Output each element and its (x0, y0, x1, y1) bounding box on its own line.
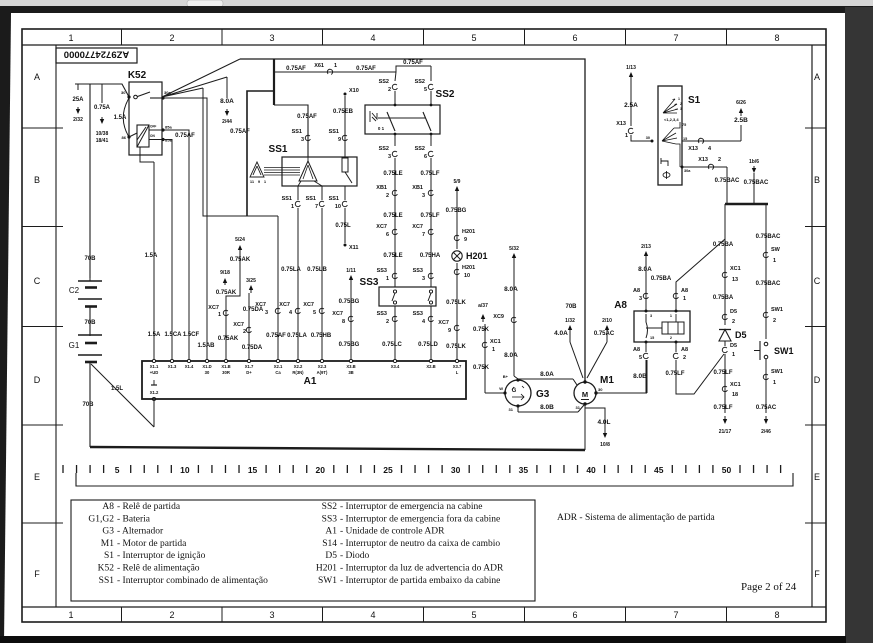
svg-text:1: 1 (625, 133, 628, 139)
svg-text:2.5B: 2.5B (734, 117, 748, 124)
svg-text:8.0A: 8.0A (504, 352, 518, 359)
svg-text:2: 2 (388, 87, 391, 93)
svg-text:1/32: 1/32 (565, 318, 575, 324)
svg-text:X2.1: X2.1 (274, 364, 283, 369)
wire 0.75K to G3 W (482, 316, 484, 322)
svg-text:15: 15 (650, 336, 654, 340)
wire node top-left (75, 84, 129, 97)
svg-text:X1.2: X1.2 (150, 390, 159, 395)
svg-text:0 1: 0 1 (378, 126, 385, 131)
svg-text:3: 3 (639, 296, 642, 302)
svg-text:1: 1 (218, 312, 221, 318)
svg-text:B+: B+ (503, 374, 509, 379)
rail 0.75AF branch (273, 59, 275, 105)
fuse ref 0.75A (101, 84, 103, 103)
svg-text:8: 8 (774, 33, 779, 43)
svg-text:2: 2 (169, 610, 174, 620)
svg-text:A8: A8 (633, 288, 640, 294)
svg-text:1: 1 (670, 314, 672, 318)
svg-text:2: 2 (718, 157, 721, 163)
svg-text:70B: 70B (565, 304, 577, 310)
svg-text:G1: G1 (69, 341, 80, 350)
svg-text:D5: D5 (325, 551, 337, 561)
svg-text:A: A (814, 72, 820, 82)
svg-text:X13: X13 (616, 121, 626, 127)
svg-text:0.75HB: 0.75HB (311, 333, 332, 339)
K52 contact 30 (127, 95, 130, 98)
wire 0.75LF A8 pin 2 to D5 (676, 354, 724, 394)
svg-text:2/13: 2/13 (641, 244, 651, 250)
wire 0.75LE SS2-3 down (394, 158, 396, 287)
svg-text:0.75AK: 0.75AK (218, 336, 239, 342)
svg-text:5: 5 (471, 610, 476, 620)
svg-text:1: 1 (683, 296, 686, 302)
svg-text:2: 2 (683, 355, 686, 361)
svg-text:A8: A8 (681, 347, 688, 353)
svg-text:0.75EB: 0.75EB (333, 109, 354, 115)
ADR control unit A1 (142, 361, 466, 399)
svg-text:5: 5 (313, 310, 316, 316)
svg-text:M1: M1 (600, 375, 614, 386)
svg-text:SS2: SS2 (379, 79, 389, 85)
svg-text:W: W (499, 386, 503, 391)
svg-text:SS1: SS1 (292, 129, 302, 135)
svg-text:31: 31 (509, 407, 514, 412)
svg-text:3B: 3B (348, 370, 353, 375)
svg-text:A8: A8 (102, 502, 114, 512)
svg-text:0.75LC: 0.75LC (382, 342, 402, 348)
svg-text:30a: 30a (684, 169, 691, 173)
wire 0.75AK column to A1 X1.B (239, 247, 241, 253)
svg-text:0.75AF: 0.75AF (297, 114, 317, 120)
svg-text:M1: M1 (101, 539, 114, 549)
svg-text:0.75AF: 0.75AF (286, 66, 306, 72)
A8 internal contact and coil (646, 314, 662, 338)
svg-text:X1.7: X1.7 (245, 364, 254, 369)
svg-text:3: 3 (269, 33, 274, 43)
svg-text:0.75LF: 0.75LF (713, 405, 732, 411)
svg-text:2: 2 (243, 329, 246, 335)
svg-text:XC7: XC7 (438, 320, 449, 326)
connector X61 pin 1 (327, 69, 332, 74)
svg-text:0.75LA: 0.75LA (287, 333, 307, 339)
svg-text:0.75AC: 0.75AC (756, 405, 777, 411)
svg-text:SS3: SS3 (322, 514, 338, 524)
SS2 pins bottom (394, 133, 397, 136)
svg-text:4.0L: 4.0L (597, 419, 610, 426)
svg-text:10: 10 (464, 273, 470, 279)
svg-text:XC7: XC7 (208, 305, 219, 311)
svg-text:K52: K52 (128, 70, 147, 81)
svg-text:SS1: SS1 (269, 144, 288, 155)
svg-text:86: 86 (122, 135, 127, 140)
svg-text:H201: H201 (462, 229, 475, 235)
svg-text:9: 9 (464, 237, 467, 243)
svg-text:SW1: SW1 (774, 346, 794, 356)
svg-text:Ca: Ca (275, 370, 281, 375)
svg-text:SS3: SS3 (413, 311, 423, 317)
svg-text:A1: A1 (304, 376, 317, 387)
svg-text:A1: A1 (325, 527, 337, 537)
svg-text:XC7: XC7 (332, 311, 343, 317)
svg-text:XC7: XC7 (303, 302, 314, 308)
alternator G3 (505, 380, 531, 406)
svg-text:C: C (814, 276, 821, 286)
svg-text:0.75LE: 0.75LE (383, 171, 402, 177)
SS2 feed corner (395, 66, 431, 81)
svg-text:8.0A: 8.0A (504, 286, 518, 293)
svg-text:0.75BA: 0.75BA (713, 242, 734, 248)
svg-text:10: 10 (180, 465, 190, 475)
svg-text:- Relê de partida: - Relê de partida (117, 502, 181, 512)
svg-text:50: 50 (722, 465, 732, 475)
svg-text:0.75A: 0.75A (94, 105, 111, 111)
svg-text:70B: 70B (82, 402, 94, 408)
top grid strip line (22, 44, 826, 46)
svg-text:0.75BAC: 0.75BAC (744, 180, 769, 186)
svg-text:- Relê de alimentação: - Relê de alimentação (117, 564, 200, 574)
svg-text:0.75LF: 0.75LF (420, 171, 439, 177)
svg-text:0.75BAC: 0.75BAC (715, 178, 740, 184)
svg-text:8.0A: 8.0A (638, 266, 652, 273)
svg-text:0.75LF: 0.75LF (713, 370, 732, 376)
svg-text:H201: H201 (462, 265, 475, 271)
svg-text:8: 8 (774, 610, 779, 620)
svg-text:SS3: SS3 (377, 268, 387, 274)
svg-text:1.5AB: 1.5AB (197, 343, 215, 349)
svg-text:1b/6: 1b/6 (749, 159, 759, 165)
svg-text:7: 7 (673, 33, 678, 43)
svg-text:5/24: 5/24 (235, 237, 245, 243)
svg-text:Page 2 of 24: Page 2 of 24 (741, 581, 797, 593)
svg-text:D5: D5 (730, 343, 737, 349)
svg-text:2: 2 (670, 336, 672, 340)
svg-text:M: M (582, 390, 588, 399)
svg-text:5: 5 (424, 87, 427, 93)
connector A8 pin 5 (643, 353, 648, 358)
svg-text:70B: 70B (84, 320, 96, 326)
svg-text:0.75BG: 0.75BG (446, 208, 467, 214)
svg-text:SS2: SS2 (322, 502, 338, 512)
wire 0.75LF SS2-6 down (430, 158, 432, 287)
svg-text:A8: A8 (681, 288, 688, 294)
svg-text:X2.B: X2.B (426, 364, 435, 369)
svg-text:85a: 85a (165, 125, 172, 130)
svg-text:2: 2 (386, 193, 389, 199)
svg-text:1: 1 (386, 276, 389, 282)
svg-text:X13: X13 (698, 157, 708, 163)
connector A8 pin 1 (673, 293, 678, 298)
svg-text:XC7: XC7 (412, 224, 423, 230)
svg-text:0.75LK: 0.75LK (446, 344, 466, 350)
svg-text:X3.7: X3.7 (453, 364, 462, 369)
wire 0.75AC ref to M1 (606, 327, 608, 333)
wire 0.75BAC to switch SW1 (765, 204, 767, 339)
right grid strip inner line (811, 45, 813, 607)
svg-text:F: F (814, 569, 820, 579)
svg-text:7: 7 (673, 610, 678, 620)
svg-text:0.75LD: 0.75LD (418, 342, 438, 348)
svg-text:XC7: XC7 (233, 322, 244, 328)
connector XC1 pin 1 (482, 342, 487, 347)
svg-text:X1.3: X1.3 (168, 364, 177, 369)
svg-text:1.5A: 1.5A (148, 332, 161, 338)
svg-text:1/11: 1/11 (346, 268, 356, 274)
svg-text:8.0A: 8.0A (220, 98, 234, 105)
svg-text:1: 1 (68, 610, 73, 620)
svg-text:C: C (34, 276, 41, 286)
svg-text:SS2: SS2 (436, 89, 455, 100)
SS3 contacts (393, 290, 396, 293)
svg-text:0.75BAC: 0.75BAC (756, 234, 781, 240)
svg-text:2/32: 2/32 (73, 117, 83, 123)
connector XC9 (511, 317, 516, 322)
svg-text:3: 3 (388, 154, 391, 160)
svg-text:SW: SW (771, 247, 781, 253)
svg-text:X10: X10 (349, 88, 359, 94)
svg-text:6: 6 (424, 154, 427, 160)
SS1 link lines (264, 167, 300, 169)
wire S1 30a to 0.75BAC (682, 166, 727, 168)
wire 4.0L from M1 (585, 408, 605, 431)
svg-text:XC1: XC1 (490, 339, 501, 345)
svg-text:2: 2 (386, 319, 389, 325)
svg-text:- Interruptor de emergencia fo: - Interruptor de emergencia fora da cabi… (340, 513, 500, 524)
svg-text:8: 8 (342, 319, 345, 325)
bottom grid strip line (22, 606, 826, 608)
connector XC1 pin 18 (722, 386, 727, 391)
svg-text:1: 1 (291, 204, 294, 210)
wire M1 31 to bus (584, 404, 586, 450)
svg-text:0.75BG: 0.75BG (339, 299, 360, 305)
svg-text:- Interruptor de neutro da cai: - Interruptor de neutro da caixa de camb… (340, 539, 500, 549)
svg-text:<1,2,3,4: <1,2,3,4 (664, 117, 679, 122)
svg-text:XB1: XB1 (376, 185, 387, 191)
svg-text:A(9T): A(9T) (317, 370, 328, 375)
svg-text:L: L (456, 370, 459, 375)
SS3 pins bottom (394, 306, 396, 361)
svg-text:E: E (814, 472, 820, 482)
wire G1 negative to ground bus 70B (89, 362, 91, 447)
svg-text:+UD: +UD (150, 370, 159, 375)
connector X13 pin 4 (698, 138, 703, 143)
svg-text:0.75HA: 0.75HA (420, 253, 441, 259)
svg-text:G1,G2: G1,G2 (88, 514, 114, 524)
svg-text:X61: X61 (314, 63, 324, 69)
ground return bus wire (90, 447, 585, 450)
svg-text:25: 25 (383, 465, 393, 475)
svg-text:35: 35 (519, 465, 529, 475)
svg-text:5/32: 5/32 (509, 246, 519, 252)
svg-text:30R: 30R (222, 370, 230, 375)
svg-text:2/10: 2/10 (602, 318, 612, 324)
wire 0.75LB SS1-7 to A1 X2.3 (321, 208, 323, 361)
svg-text:9/18: 9/18 (220, 270, 230, 276)
svg-text:3: 3 (265, 310, 268, 316)
svg-text:1: 1 (334, 63, 337, 69)
svg-text:- Diodo: - Diodo (340, 551, 370, 561)
connector D5 pin 1 (722, 347, 727, 352)
svg-text:0.75LB: 0.75LB (307, 267, 327, 273)
junction bar node (725, 203, 768, 206)
svg-text:4: 4 (370, 610, 375, 620)
wire 0.75AF bypass to A1 X2.1 (277, 216, 279, 361)
wire 4.0A ref to M1 (569, 327, 571, 333)
svg-text:R(3N): R(3N) (292, 370, 304, 375)
svg-text:5/9: 5/9 (454, 179, 461, 185)
svg-text:0.75AF: 0.75AF (175, 133, 195, 139)
svg-text:SS1: SS1 (329, 196, 339, 202)
svg-text:7: 7 (422, 232, 425, 238)
svg-text:6/26: 6/26 (736, 100, 746, 106)
svg-text:10/8: 10/8 (600, 442, 610, 448)
svg-text:2: 2 (732, 319, 735, 325)
svg-text:3: 3 (422, 276, 425, 282)
svg-text:SS1: SS1 (306, 196, 316, 202)
svg-text:1: 1 (678, 97, 680, 101)
svg-text:0.75AF: 0.75AF (356, 66, 376, 72)
title block AZ9724770000 (56, 48, 137, 63)
wire 0.75AF bypass from bar (247, 91, 274, 216)
wire 1.5AB 30a to A1 X1.D (163, 98, 207, 361)
svg-text:X1.D: X1.D (202, 364, 211, 369)
svg-text:H201: H201 (316, 564, 337, 574)
svg-text:K52: K52 (98, 564, 115, 574)
svg-text:40: 40 (586, 465, 596, 475)
svg-text:A8: A8 (633, 347, 640, 353)
svg-text:30: 30 (646, 136, 650, 140)
svg-text:SS1: SS1 (329, 129, 339, 135)
svg-text:1.5A: 1.5A (114, 115, 127, 121)
A1 terminal labels (152, 359, 155, 362)
svg-text:2: 2 (680, 102, 682, 106)
svg-text:G3: G3 (102, 527, 114, 537)
svg-text:G3: G3 (536, 389, 550, 400)
svg-text:XC1: XC1 (730, 266, 741, 272)
fuse ref 8.0A (226, 77, 228, 98)
svg-text:SS1: SS1 (282, 196, 292, 202)
K52 coil (137, 125, 149, 147)
svg-text:6: 6 (572, 33, 577, 43)
svg-text:XC9: XC9 (493, 314, 504, 320)
svg-text:ON: ON (150, 134, 155, 138)
SS1 internal drops (298, 181, 301, 186)
svg-text:0.75AF: 0.75AF (230, 129, 250, 135)
svg-text:30: 30 (451, 465, 461, 475)
wire 0.75LK H201 to A1 X3.7 (456, 263, 458, 361)
svg-text:1: 1 (68, 33, 73, 43)
svg-text:4: 4 (370, 33, 375, 43)
svg-text:0.75K: 0.75K (473, 327, 490, 333)
wire 0.75LA SS1-1 to A1 X2.2 (297, 208, 299, 361)
wire 1.5L battery to A1 ground (91, 364, 154, 427)
svg-text:45: 45 (654, 465, 664, 475)
svg-text:30: 30 (121, 90, 126, 95)
svg-text:1.5CF: 1.5CF (183, 332, 200, 338)
connector SW1 pin 1 (763, 374, 768, 379)
SS2 switch arms (387, 112, 395, 131)
svg-text:SW1: SW1 (771, 369, 783, 375)
svg-text:- Unidade de controle ADR: - Unidade de controle ADR (340, 527, 445, 537)
wire 0.75AF bypass from K52 fan (203, 88, 278, 216)
svg-text:S1: S1 (104, 551, 114, 561)
svg-text:3: 3 (650, 314, 652, 318)
svg-text:X11: X11 (349, 245, 358, 251)
scale ruler (62, 465, 64, 473)
svg-text:1: 1 (492, 347, 495, 353)
connector SW pin 1 (763, 252, 768, 257)
svg-text:3: 3 (680, 107, 682, 111)
SS1 right triangle (299, 161, 317, 181)
svg-text:0.75AK: 0.75AK (216, 290, 237, 296)
svg-text:D5: D5 (730, 309, 737, 315)
svg-text:C2: C2 (69, 286, 80, 295)
svg-text:A: A (34, 72, 40, 82)
svg-text:2.5A: 2.5A (624, 102, 638, 109)
ruler bracket line (76, 473, 793, 486)
wire X10 stub (344, 93, 347, 96)
SS1 left triangle symbol (250, 162, 264, 177)
svg-text:0.75AK: 0.75AK (230, 257, 251, 263)
svg-text:S14: S14 (322, 539, 337, 549)
pushbutton switch SW1 (764, 342, 768, 346)
wire fan from K52 30a (162, 59, 240, 97)
svg-text:2: 2 (169, 33, 174, 43)
svg-text:3: 3 (269, 610, 274, 620)
connector X13 pin 2 (708, 164, 713, 169)
wire 8.0A ref to A8 pin 3 (645, 253, 647, 259)
wire 8.0A G3 to M1 (518, 378, 573, 380)
legend box (71, 500, 535, 601)
ignition switch S1 (658, 86, 682, 185)
wire battery feed 70B (89, 84, 91, 278)
wire 2.5B S1 pin 15 (682, 140, 741, 142)
svg-text:- Interruptor de ignição: - Interruptor de ignição (117, 551, 206, 561)
svg-text:70B: 70B (84, 256, 96, 262)
svg-text:20: 20 (316, 465, 326, 475)
wire 8.0B G3 31 to M1 31 (517, 406, 519, 412)
connector XC1 pin 13 (722, 272, 727, 277)
svg-text:X1.B: X1.B (221, 364, 230, 369)
svg-text:0.75L: 0.75L (335, 223, 351, 229)
svg-text:- Interruptor combinado de ali: - Interruptor combinado de alimentação (117, 576, 268, 586)
svg-text:0.75LK: 0.75LK (446, 300, 466, 306)
SS1 resistor element (342, 158, 348, 172)
svg-text:XC7: XC7 (376, 224, 387, 230)
svg-text:- Bateria: - Bateria (117, 514, 151, 524)
grid column dividers (121, 29, 123, 45)
svg-text:- Interruptor da luz de advert: - Interruptor da luz de advertencia do A… (340, 564, 504, 574)
connector SW1 pin 2 (763, 312, 768, 317)
svg-text:13: 13 (732, 277, 738, 283)
svg-text:XC7: XC7 (279, 302, 290, 308)
grid row dividers (22, 127, 63, 129)
svg-text:ADR - Sistema de alimentação d: ADR - Sistema de alimentação de partida (557, 513, 716, 523)
wire 8.0B M1 to A8 pin 5 (596, 392, 647, 394)
wire 1.5A K52 to A1 X1.1 (153, 162, 155, 361)
svg-text:1: 1 (773, 380, 776, 386)
schematic border box (56, 45, 812, 607)
svg-text:0.75LE: 0.75LE (383, 213, 402, 219)
svg-text:5: 5 (639, 355, 642, 361)
svg-text:SS3: SS3 (413, 268, 423, 274)
S1 rotor contacts (662, 122, 680, 167)
svg-text:SW1: SW1 (318, 576, 337, 586)
connector H201 pin 10 (454, 269, 459, 274)
svg-text:1: 1 (732, 352, 735, 358)
svg-text:S1: S1 (688, 95, 701, 106)
svg-text:H201: H201 (466, 251, 488, 261)
